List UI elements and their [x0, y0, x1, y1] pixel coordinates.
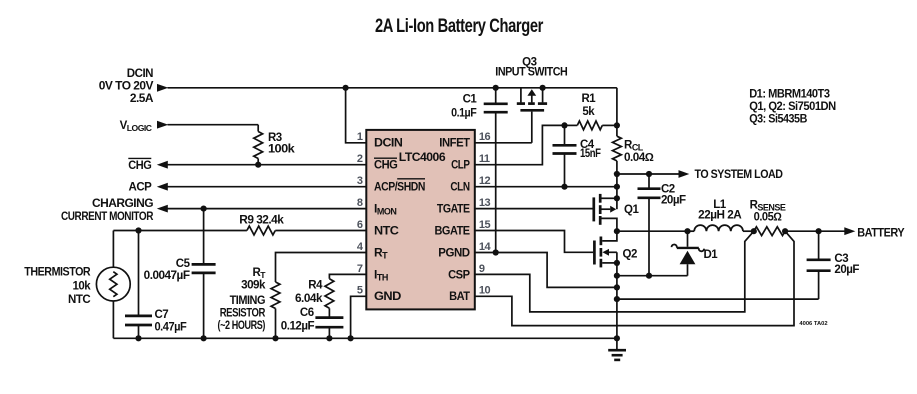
svg-text:20µF: 20µF: [834, 264, 859, 276]
node C5/ground junction: [201, 335, 207, 341]
svg-text:0.0047µF: 0.0047µF: [144, 270, 190, 282]
node rail/system-load junction: [614, 171, 620, 177]
node GND/ground junction: [348, 335, 354, 341]
wire ITH pin: [329, 274, 366, 278]
svg-text:6.04k: 6.04k: [295, 293, 323, 305]
svg-text:C6: C6: [300, 307, 314, 319]
resistor RT: [271, 282, 280, 309]
capacitor C1: [495, 88, 497, 104]
capacitor C5: [203, 209, 205, 265]
resistor R9: [247, 226, 275, 235]
svg-text:CHARGING: CHARGING: [92, 198, 154, 210]
node R3/CHG junction: [255, 162, 261, 168]
node CLN/rail junction: [614, 184, 620, 190]
wire battery: [785, 230, 844, 232]
transistor Q2 body arrow: [602, 249, 609, 256]
svg-text:C1: C1: [463, 94, 478, 106]
wire Q1 drain-body tie: [616, 198, 618, 209]
svg-text:5k: 5k: [582, 106, 595, 118]
wire NTC left: [113, 230, 247, 232]
svg-text:ACP: ACP: [129, 182, 153, 194]
transistor Q3 body arrow: [531, 95, 533, 102]
capacitor C3: [818, 231, 820, 259]
node battery arrow: [844, 227, 855, 235]
wire IMON: [168, 208, 367, 210]
capacitor C6: [328, 308, 330, 317]
svg-text:R3: R3: [268, 132, 282, 144]
transistor Q2 drain stub: [602, 231, 617, 241]
node DCIN/pin1 junction: [343, 85, 349, 91]
capacitor C4: [564, 125, 566, 145]
node IMON output arrow: [157, 205, 168, 213]
svg-text:CSP: CSP: [448, 267, 470, 281]
svg-text:2.5A: 2.5A: [130, 93, 153, 105]
wire switch node: [617, 230, 688, 232]
wire VLOGIC: [168, 124, 259, 126]
node system load arrow: [679, 170, 690, 178]
transistor Q2 channel: [600, 237, 603, 246]
wire CSP: [475, 231, 754, 312]
node RSENSE right junction: [782, 228, 788, 234]
svg-text:LTC4006: LTC4006: [399, 150, 446, 164]
wire TGATE: [475, 208, 593, 210]
svg-text:R4: R4: [308, 280, 323, 292]
resistor R4: [325, 279, 334, 309]
node C2 bottom junction: [646, 273, 652, 279]
svg-text:11: 11: [479, 153, 490, 165]
transistor Q1 gate bar: [592, 197, 595, 221]
wire rail top: [616, 88, 618, 126]
svg-text:4006 TA02: 4006 TA02: [799, 321, 827, 327]
svg-text:CLP: CLP: [451, 158, 470, 172]
svg-text:9: 9: [479, 263, 485, 275]
svg-text:NTC: NTC: [68, 294, 90, 306]
svg-text:12: 12: [479, 175, 491, 187]
node C6/ground junction: [326, 335, 332, 341]
node IMON/C5 junction: [201, 206, 207, 212]
node switch/D1 junction: [684, 228, 690, 234]
svg-text:1: 1: [357, 131, 363, 143]
wire INFET: [475, 142, 532, 144]
svg-text:THERMISTOR: THERMISTOR: [24, 266, 91, 278]
svg-text:TO SYSTEM LOAD: TO SYSTEM LOAD: [695, 169, 783, 181]
svg-text:ACP/SHDN: ACP/SHDN: [374, 180, 425, 194]
svg-text:C5: C5: [176, 258, 191, 270]
node ground rail junction: [614, 335, 620, 341]
svg-text:CURRENT MONITOR: CURRENT MONITOR: [61, 211, 154, 223]
ground: [608, 349, 626, 352]
resistor RSENSE: [754, 227, 785, 236]
wire PGND: [475, 253, 617, 288]
svg-text:BATTERY: BATTERY: [857, 227, 905, 239]
svg-text:100k: 100k: [268, 144, 295, 156]
svg-text:14: 14: [479, 241, 492, 253]
svg-text:2: 2: [357, 153, 363, 165]
svg-text:7: 7: [357, 263, 363, 275]
svg-text:Q1: Q1: [624, 204, 639, 216]
svg-text:0.47µF: 0.47µF: [155, 321, 187, 333]
svg-text:0.12µF: 0.12µF: [281, 321, 315, 333]
svg-text:22µH 2A: 22µH 2A: [698, 209, 741, 221]
wire to system load: [617, 173, 679, 175]
svg-text:PGND: PGND: [438, 245, 470, 259]
node Q1 drain junction: [614, 195, 620, 201]
op-amp U1 LTC4006 body: [366, 130, 475, 310]
node Q2 source junction: [614, 260, 620, 266]
svg-text:R1: R1: [581, 93, 596, 105]
node RT/ground junction: [272, 335, 278, 341]
capacitor C7: [138, 231, 140, 316]
svg-text:TIMING: TIMING: [230, 295, 266, 307]
diode D1: [687, 264, 689, 276]
transistor Q1 source stub: [602, 218, 617, 231]
node DCIN input arrow: [157, 84, 168, 92]
transistor Q3 gate: [520, 109, 544, 112]
resistor R3: [257, 125, 259, 132]
thermistor RT1 circle: [96, 267, 130, 301]
svg-text:0.04Ω: 0.04Ω: [624, 152, 654, 164]
svg-text:5: 5: [357, 285, 363, 297]
svg-text:CHG: CHG: [374, 158, 398, 172]
wire thermistor top: [112, 231, 114, 268]
svg-text:INFET: INFET: [439, 136, 470, 150]
svg-text:2A Li-Ion Battery Charger: 2A Li-Ion Battery Charger: [375, 15, 544, 37]
svg-text:DCIN: DCIN: [127, 68, 153, 80]
transistor Q3 left stub: [520, 88, 522, 103]
svg-text:13: 13: [479, 197, 491, 209]
node C4/CLN junction: [561, 184, 567, 190]
wire rail to ground: [616, 263, 618, 350]
node DCIN/Q3 junction: [540, 85, 546, 91]
wire DCIN to pin 1: [346, 88, 367, 143]
wire thermistor bottom: [112, 301, 114, 338]
svg-text:NTC: NTC: [374, 223, 399, 237]
wire GND pin: [351, 296, 367, 338]
svg-text:3: 3: [357, 175, 363, 187]
svg-text:DCIN: DCIN: [374, 136, 402, 150]
node VLOGIC input arrow: [157, 121, 168, 129]
node C7/ground junction: [135, 335, 141, 341]
transistor Q1 drain stub: [602, 197, 617, 199]
resistor RCL: [616, 125, 618, 136]
node switch/rail junction: [614, 228, 620, 234]
svg-text:15nF: 15nF: [580, 148, 601, 160]
node C3/rail junction: [614, 296, 620, 302]
svg-text:D1: MBRM140T3: D1: MBRM140T3: [749, 89, 829, 101]
wire BGATE: [475, 231, 593, 253]
svg-text:Q2: Q2: [623, 249, 637, 261]
node NTC/C7 junction: [135, 227, 141, 233]
node CHG output arrow: [157, 161, 168, 169]
transistor Q1 channel: [599, 194, 602, 203]
wire CLP: [475, 125, 565, 164]
svg-text:GND: GND: [374, 289, 402, 303]
svg-text:Q1, Q2: Si7501DN: Q1, Q2: Si7501DN: [749, 101, 836, 113]
node PGND/rail junction: [614, 284, 620, 290]
transistor Q3 channel: [517, 102, 525, 105]
transistor Q2 source stub: [602, 262, 617, 264]
thermistor RT1 element: [110, 272, 117, 297]
wire DCIN rail: [168, 87, 617, 89]
wire RT pin: [276, 253, 367, 283]
svg-text:TGATE: TGATE: [437, 202, 470, 216]
svg-text:INPUT SWITCH: INPUT SWITCH: [495, 67, 567, 79]
svg-text:8: 8: [357, 197, 363, 209]
resistor R1: [565, 124, 578, 126]
node C2 top junction: [646, 171, 652, 177]
wire CLN: [475, 186, 617, 188]
wire ground rail: [113, 337, 617, 339]
svg-text:10: 10: [479, 285, 491, 297]
svg-text:309k: 309k: [241, 279, 266, 291]
svg-text:0.1µF: 0.1µF: [451, 107, 477, 119]
transistor Q2 gate bar: [593, 241, 596, 265]
svg-text:10k: 10k: [73, 281, 92, 293]
wire BAT: [475, 231, 794, 325]
svg-text:C7: C7: [155, 309, 169, 321]
node DCIN/C1 junction: [493, 85, 499, 91]
node R1 right junction: [614, 122, 620, 128]
svg-text:6: 6: [357, 219, 363, 231]
wire CHG: [168, 164, 367, 166]
wire Q2 body-source tie: [616, 252, 618, 263]
svg-text:16: 16: [479, 131, 491, 143]
transistor Q1 body arrow: [602, 208, 611, 210]
node rail 275 junction: [614, 273, 620, 279]
svg-text:20µF: 20µF: [661, 194, 686, 206]
svg-text:RESISTOR: RESISTOR: [220, 308, 266, 320]
inductor L1: [688, 230, 695, 232]
svg-text:Q3: Si5435B: Q3: Si5435B: [749, 113, 807, 125]
transistor Q3 right stub: [542, 88, 544, 103]
capacitor C2: [648, 174, 650, 189]
node C1/PGND junction: [493, 249, 499, 255]
svg-text:(~2 HOURS): (~2 HOURS): [218, 320, 266, 332]
node ACP output arrow: [157, 183, 168, 191]
node R1 left junction: [561, 122, 567, 128]
wire ACP: [168, 186, 367, 188]
wire Q2 source rail: [617, 275, 688, 277]
svg-text:D1: D1: [704, 249, 719, 261]
svg-text:R9 32.4k: R9 32.4k: [239, 215, 284, 227]
svg-text:BAT: BAT: [449, 289, 471, 303]
node C3 top junction: [816, 228, 822, 234]
svg-text:CLN: CLN: [450, 180, 469, 194]
svg-text:BGATE: BGATE: [435, 223, 471, 237]
svg-text:0V TO 20V: 0V TO 20V: [99, 80, 154, 92]
wire NTC: [275, 230, 366, 232]
svg-text:CHG: CHG: [128, 160, 152, 172]
svg-text:0.05Ω: 0.05Ω: [754, 211, 782, 223]
svg-text:15: 15: [479, 219, 491, 231]
node RSENSE left junction: [751, 228, 757, 234]
